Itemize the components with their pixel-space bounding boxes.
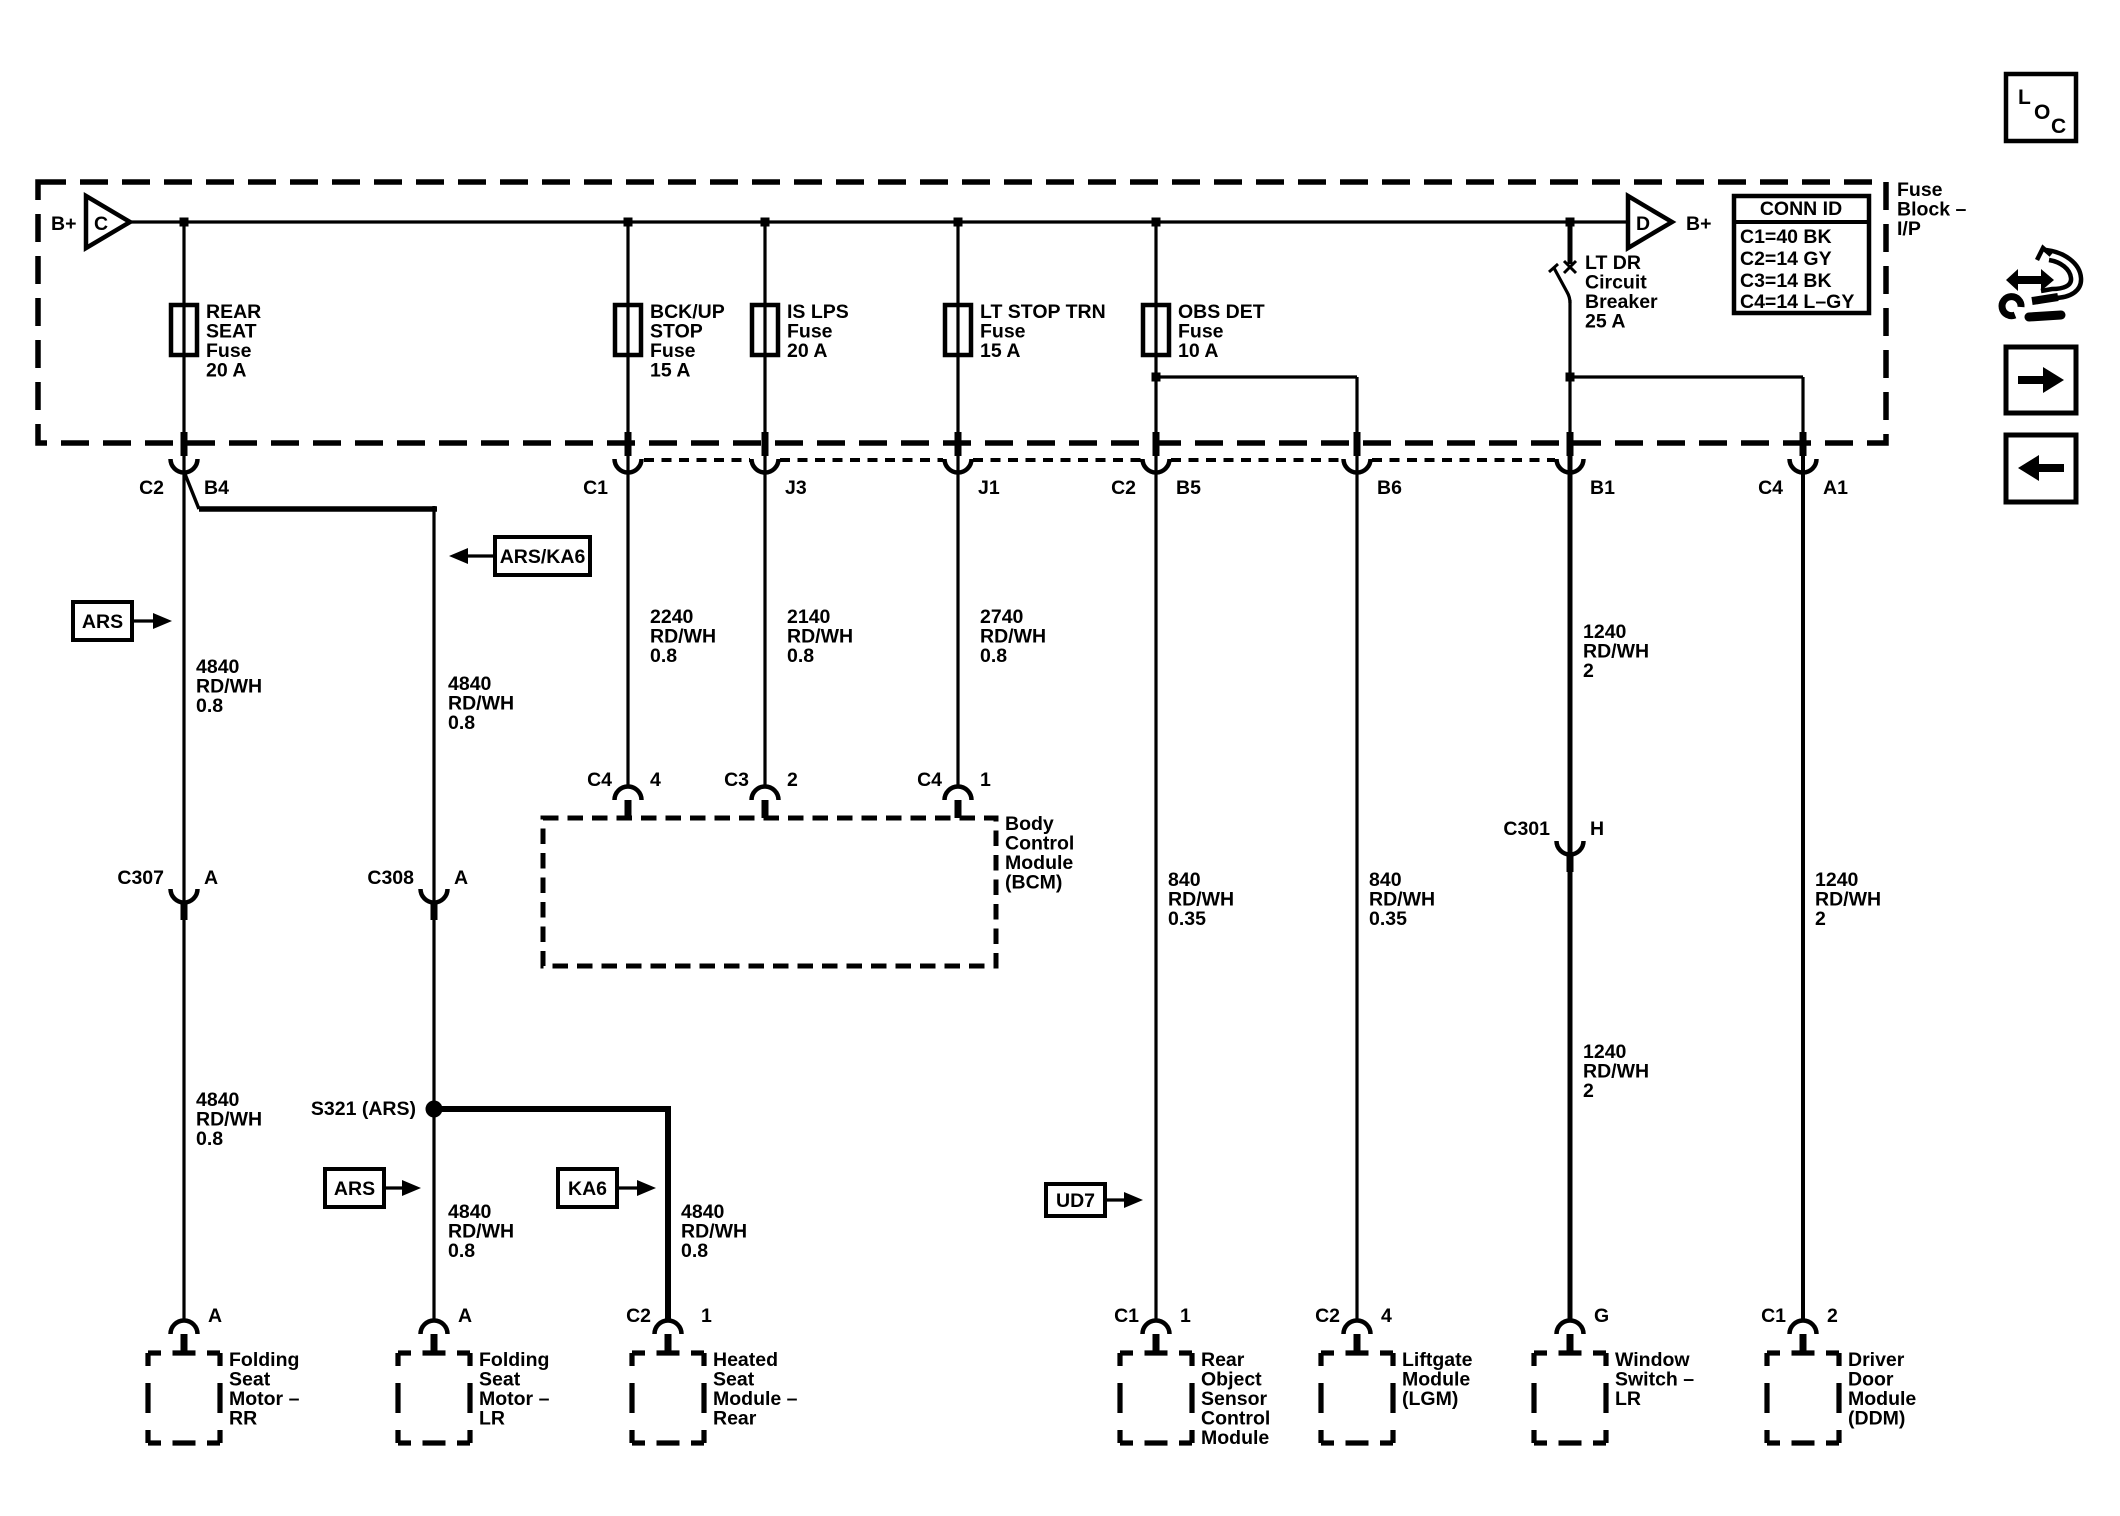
flag box ARS left xyxy=(73,602,132,640)
svg-text:C: C xyxy=(94,213,108,235)
connector terminal C2/B4 at fuse block xyxy=(181,432,188,456)
junction node breaker branch xyxy=(1566,373,1575,382)
svg-text:2: 2 xyxy=(1583,660,1594,682)
power triangle D (B+ feed) xyxy=(1628,196,1672,248)
svg-text:H: H xyxy=(1590,818,1604,840)
LOC reference box xyxy=(2006,74,2076,141)
wire B1 down to C301 xyxy=(1568,453,1573,853)
svg-text:C307: C307 xyxy=(117,867,164,889)
svg-text:C3=14 BK: C3=14 BK xyxy=(1740,270,1832,292)
svg-text:1: 1 xyxy=(701,1305,712,1327)
wire C308 down through S321 xyxy=(432,920,435,1321)
connector terminal C2/B5 at fuse block xyxy=(1153,432,1160,456)
flag box KA6 xyxy=(558,1169,617,1207)
circuit breaker LT DR 25 A xyxy=(1564,261,1576,273)
flag box ARS lower xyxy=(325,1169,384,1207)
wire C1 to BCM xyxy=(626,453,629,787)
wire from bus through REAR SEAT fuse xyxy=(182,222,185,433)
svg-text:G: G xyxy=(1594,1305,1609,1327)
svg-text:C2: C2 xyxy=(626,1305,651,1327)
connector terminal J3 at fuse block xyxy=(762,432,769,456)
svg-text:B1: B1 xyxy=(1590,477,1615,499)
svg-text:1: 1 xyxy=(1180,1305,1191,1327)
svg-text:(LGM): (LGM) xyxy=(1402,1388,1458,1410)
svg-text:0.8: 0.8 xyxy=(681,1240,708,1262)
module box Liftgate Module LGM xyxy=(1321,1350,1334,1355)
bus wire B+ xyxy=(130,220,1628,223)
svg-text:B6: B6 xyxy=(1377,477,1402,499)
svg-text:0.8: 0.8 xyxy=(196,1128,223,1150)
arrow ARS lower to wire xyxy=(384,1186,402,1189)
arrow KA6 to wire xyxy=(617,1186,637,1189)
svg-text:0.8: 0.8 xyxy=(448,712,475,734)
svg-text:B5: B5 xyxy=(1176,477,1201,499)
svg-text:10 A: 10 A xyxy=(1178,340,1218,362)
wire B5 down to rear object sensor module xyxy=(1154,453,1157,1321)
svg-text:A: A xyxy=(454,867,468,889)
arrow ARS/KA6 to wire xyxy=(468,554,495,557)
fuse IS LPS xyxy=(752,305,778,355)
module box Folding Seat Motor LR xyxy=(398,1350,411,1355)
arrow UD7 to wire xyxy=(1105,1198,1124,1201)
svg-text:1: 1 xyxy=(980,769,991,791)
svg-text:C301: C301 xyxy=(1503,818,1550,840)
svg-text:2: 2 xyxy=(1815,908,1826,930)
svg-text:4: 4 xyxy=(650,769,661,791)
wire C301 down to window switch xyxy=(1568,872,1573,1321)
CONN ID table xyxy=(1734,196,1869,313)
wire A1 down to driver door module xyxy=(1801,453,1805,1321)
wire J1 to BCM xyxy=(956,453,959,787)
svg-text:ARS: ARS xyxy=(334,1178,375,1200)
flag box UD7 xyxy=(1046,1184,1105,1216)
svg-text:C2=14 GY: C2=14 GY xyxy=(1740,248,1832,270)
svg-text:(DDM): (DDM) xyxy=(1848,1408,1905,1430)
wire breaker branch to A1 xyxy=(1570,375,1803,378)
svg-text:L: L xyxy=(2018,86,2031,109)
module box Window Switch LR xyxy=(1534,1350,1547,1355)
module box Folding Seat Motor RR xyxy=(148,1350,161,1355)
svg-text:2: 2 xyxy=(1827,1305,1838,1327)
svg-text:A: A xyxy=(208,1305,222,1327)
connector terminal C4/A1 at fuse block xyxy=(1800,432,1807,456)
svg-text:J1: J1 xyxy=(978,477,1000,499)
svg-text:C3: C3 xyxy=(724,769,749,791)
wire OBS DET branch to B6 xyxy=(1156,375,1357,378)
svg-text:0.35: 0.35 xyxy=(1369,908,1407,930)
dotted in-line connector link C1-J3-J1-B5-B6-B1 xyxy=(644,458,750,462)
svg-text:Rear: Rear xyxy=(713,1408,757,1430)
svg-text:O: O xyxy=(2034,101,2050,124)
svg-text:RR: RR xyxy=(229,1408,257,1430)
svg-text:UD7: UD7 xyxy=(1056,1190,1095,1212)
flag box ARS/KA6 xyxy=(495,537,590,575)
fuse REAR SEAT xyxy=(171,305,197,355)
wire breaker down xyxy=(1568,300,1571,433)
wire from bus through IS LPS fuse xyxy=(763,222,766,433)
junction node OBS DET branch xyxy=(1152,373,1161,382)
svg-text:0.8: 0.8 xyxy=(980,645,1007,667)
wire 4840 RD/WH from B4 down xyxy=(182,453,185,901)
svg-text:20 A: 20 A xyxy=(206,360,246,382)
forward arrow box xyxy=(2006,347,2076,413)
wire ARS/KA6 drop down to C308 xyxy=(432,506,435,901)
svg-text:C4: C4 xyxy=(1758,477,1783,499)
fuse LT STOP TRN xyxy=(945,305,971,355)
svg-text:C1: C1 xyxy=(583,477,608,499)
junction node on bus x=1570 xyxy=(1566,218,1575,227)
svg-text:ARS/KA6: ARS/KA6 xyxy=(500,546,586,568)
svg-text:C4: C4 xyxy=(587,769,612,791)
svg-text:KA6: KA6 xyxy=(568,1178,607,1200)
svg-text:C4=14 L–GY: C4=14 L–GY xyxy=(1740,291,1854,313)
svg-text:A: A xyxy=(458,1305,472,1327)
svg-text:B+: B+ xyxy=(1686,213,1711,235)
svg-text:B4: B4 xyxy=(204,477,229,499)
module box Heated Seat Module Rear xyxy=(632,1350,645,1355)
wire C307 down xyxy=(182,920,185,1321)
Body Control Module dashed box xyxy=(543,818,996,966)
arrow ARS to wire xyxy=(132,619,153,622)
svg-text:C: C xyxy=(2051,115,2066,138)
module box Rear Object Sensor Control Module xyxy=(1120,1350,1133,1355)
fuse block I/P dashed outline xyxy=(38,182,1886,443)
svg-text:C1: C1 xyxy=(1114,1305,1139,1327)
junction node on bus x=958 xyxy=(954,218,963,227)
back arrow box xyxy=(2006,435,2076,502)
svg-text:0.8: 0.8 xyxy=(787,645,814,667)
svg-text:C2: C2 xyxy=(139,477,164,499)
wire S321 branch down to heated seat module xyxy=(665,1106,671,1321)
svg-text:0.8: 0.8 xyxy=(650,645,677,667)
svg-text:J3: J3 xyxy=(785,477,807,499)
fuse BCK/UP STOP xyxy=(615,305,641,355)
module box Driver Door Module DDM xyxy=(1767,1350,1780,1355)
svg-text:C2: C2 xyxy=(1111,477,1136,499)
svg-text:20 A: 20 A xyxy=(787,340,827,362)
svg-text:2: 2 xyxy=(1583,1080,1594,1102)
junction node on bus x=765 xyxy=(761,218,770,227)
wire from bus through BCK/UP STOP fuse xyxy=(626,222,629,433)
svg-text:LR: LR xyxy=(1615,1388,1641,1410)
wire from bus through LT STOP TRN fuse xyxy=(956,222,959,433)
connector terminal B1 at fuse block xyxy=(1567,432,1574,456)
svg-text:D: D xyxy=(1636,213,1650,235)
svg-text:15 A: 15 A xyxy=(650,360,690,382)
svg-text:CONN ID: CONN ID xyxy=(1760,198,1842,220)
svg-text:S321 (ARS): S321 (ARS) xyxy=(311,1098,416,1120)
svg-text:C4: C4 xyxy=(917,769,942,791)
fuse OBS DET xyxy=(1143,305,1169,355)
svg-text:ARS: ARS xyxy=(82,611,123,633)
connector terminal B6 at fuse block xyxy=(1354,432,1361,456)
wire branch B4 horizontal to ARS/KA6 drop xyxy=(199,506,437,512)
svg-text:A1: A1 xyxy=(1823,477,1848,499)
svg-text:C308: C308 xyxy=(367,867,414,889)
svg-text:25 A: 25 A xyxy=(1585,311,1625,333)
wire branch B4 diagonal xyxy=(185,474,199,509)
connector terminal J1 at fuse block xyxy=(955,432,962,456)
svg-text:A: A xyxy=(204,867,218,889)
connector terminal C1 at fuse block xyxy=(625,432,632,456)
svg-text:15 A: 15 A xyxy=(980,340,1020,362)
junction node on bus x=628 xyxy=(624,218,633,227)
svg-text:C1=40 BK: C1=40 BK xyxy=(1740,226,1832,248)
svg-text:I/P: I/P xyxy=(1897,218,1921,240)
wire S321 branch horizontal xyxy=(434,1106,671,1112)
svg-text:0.8: 0.8 xyxy=(448,1240,475,1262)
svg-text:C1: C1 xyxy=(1761,1305,1786,1327)
wire J3 to BCM xyxy=(763,453,766,787)
wire from bus through OBS DET fuse xyxy=(1154,222,1157,433)
diagnostic wrench icon xyxy=(2006,269,2054,291)
svg-text:4: 4 xyxy=(1381,1305,1392,1327)
junction node on bus x=184 xyxy=(180,218,189,227)
svg-text:B+: B+ xyxy=(51,213,76,235)
wire bus to circuit breaker xyxy=(1568,222,1573,264)
svg-text:0.35: 0.35 xyxy=(1168,908,1206,930)
svg-text:C2: C2 xyxy=(1315,1305,1340,1327)
svg-text:Module: Module xyxy=(1201,1427,1269,1449)
svg-text:2: 2 xyxy=(787,769,798,791)
wire B6 down to liftgate module xyxy=(1355,453,1358,1321)
power triangle C (B+ feed) xyxy=(86,196,130,248)
svg-text:LR: LR xyxy=(479,1408,505,1430)
svg-text:(BCM): (BCM) xyxy=(1005,872,1062,894)
svg-text:0.8: 0.8 xyxy=(196,695,223,717)
junction node on bus x=1156 xyxy=(1152,218,1161,227)
